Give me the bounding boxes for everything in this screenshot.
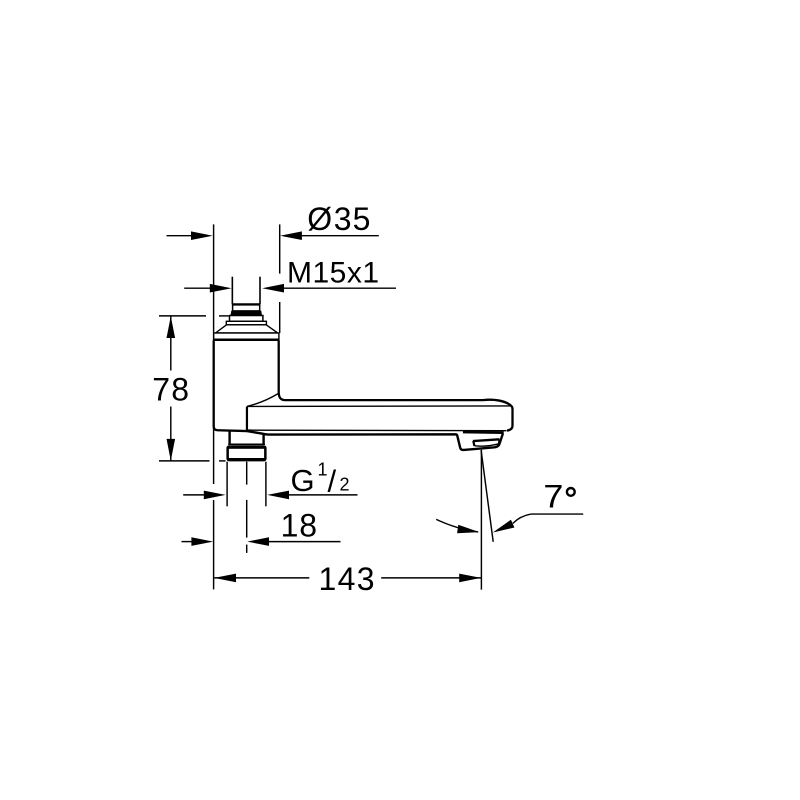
outlet centerline [246,462,248,485]
step band [230,316,263,322]
7° leader line with arrow [531,513,583,515]
svg-text:18: 18 [281,508,318,544]
spout shoulder arc [247,394,278,407]
svg-text:/: / [328,464,337,499]
svg-text:7: 7 [543,479,563,515]
svg-text:M15x1: M15x1 [287,257,380,290]
black band [231,311,262,316]
svg-text:G: G [291,463,315,498]
7° vertical reference line [480,450,482,590]
bottom connector neck [228,431,230,444]
svg-text:1: 1 [318,459,328,479]
spout top front edge [247,405,511,408]
spout left edge [246,406,248,431]
7° left arc with arrow [436,519,478,532]
flange [226,321,266,325]
body right wall and spout top edge [279,341,513,431]
svg-text:78: 78 [152,372,190,408]
thread collar band [233,304,260,311]
7° tilted flow line [481,450,493,542]
outlet top edge [463,431,504,434]
body left wall [214,341,247,432]
supply pipe M15 thread walls [231,277,233,304]
aerator slot [473,439,500,441]
svg-text:35: 35 [334,201,372,237]
base rim [214,333,279,340]
dimension G1/2 [183,494,204,496]
dimension 18 [182,541,193,543]
Ø35 right extension line (x=279.7) [279,224,281,273]
flared skirt [216,325,278,333]
spout bottom back edge [248,429,507,432]
G1/2 extension lines [226,462,228,507]
svg-text:Ø: Ø [307,201,332,237]
threaded nut G1/2 [226,445,266,461]
spout bottom front edge and outlet housing outline [247,431,503,450]
dimension Ø35 [167,235,193,237]
svg-text:143: 143 [319,561,376,597]
wall reference extension line (left, x=213.6) [213,224,215,484]
dimension M15x1 [184,287,210,289]
dimension 78 line and arrows [170,316,172,370]
svg-text:2: 2 [340,475,350,495]
dimension 143 [214,577,309,579]
dimension 78 extension lines [159,315,206,317]
